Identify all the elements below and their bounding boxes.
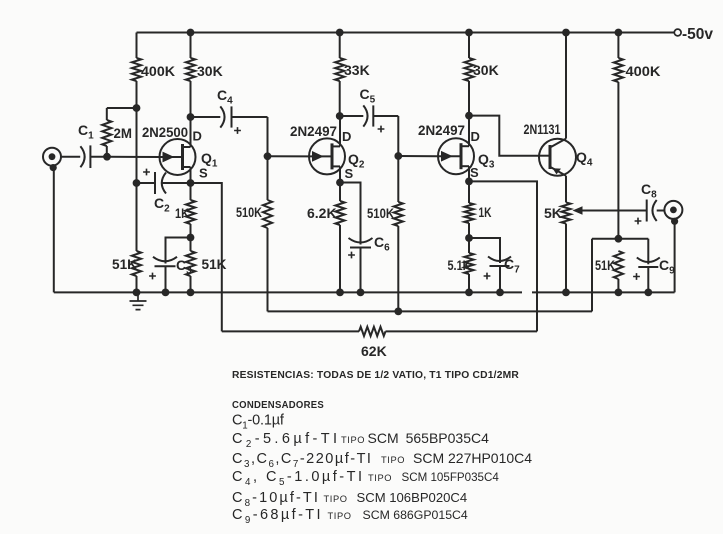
wire bottom ground rail (right part) [532, 291, 675, 293]
svg-text:C5: C5 [360, 86, 376, 106]
node Q2 drain [336, 112, 344, 120]
Q4 collector diagonal [550, 139, 566, 148]
wire Q1 drain [190, 117, 192, 147]
capacitor C5 [340, 115, 364, 117]
svg-text:51K: 51K [595, 257, 615, 273]
node Q3 source network [465, 234, 473, 242]
svg-text:5K: 5K [544, 205, 562, 221]
svg-text:RESISTENCIAS: TODAS DE 1/2 VAT: RESISTENCIAS: TODAS DE 1/2 VATIO, T1 TIP… [232, 369, 519, 381]
wire bias tap down to 510K bus [591, 239, 593, 312]
capacitor C8 [652, 200, 656, 221]
node A : C1 / 2M / Q1 gate junction [103, 153, 111, 161]
svg-text:62K: 62K [361, 343, 387, 359]
transistor Q2 2N2497 [309, 138, 345, 174]
wire Q4 emitter down [565, 176, 567, 203]
svg-text:D: D [342, 129, 351, 144]
svg-text:2N1131: 2N1131 [524, 122, 561, 137]
transistor Q1 2N2500 [160, 139, 196, 175]
ground [130, 292, 147, 309]
svg-text:2N2497: 2N2497 [418, 122, 465, 138]
svg-text:2N2497: 2N2497 [290, 123, 337, 139]
svg-text:51K: 51K [112, 256, 137, 272]
wire C5 out down to Q3 gate [397, 116, 399, 156]
node Q1 drain [187, 113, 195, 121]
svg-text:510K: 510K [236, 204, 262, 220]
terminal -50v open circle [674, 29, 681, 36]
node Q2 source [336, 179, 344, 187]
resistor 51K (Q1 source lower) [186, 251, 195, 276]
wire Q2 drain [339, 116, 341, 146]
capacitor C7 [469, 238, 500, 263]
svg-text:C3,C6,C7-220µf-TITIPOSCM 227HP: C3,C6,C7-220µf-TITIPOSCM 227HP010C4 [232, 450, 532, 470]
svg-text:-50v: -50v [682, 26, 713, 43]
svg-text:30K: 30K [473, 62, 499, 78]
svg-text:5.1K: 5.1K [448, 257, 471, 273]
node output bias tap [615, 235, 623, 243]
resistor 30K (Q1 drain load) [190, 33, 192, 59]
node Q2 gate [264, 152, 272, 160]
wire Q1 source [190, 167, 192, 183]
svg-text:C1-0.1µf: C1-0.1µf [232, 413, 285, 432]
svg-text:S: S [345, 166, 354, 181]
resistor 62K (feedback) [222, 330, 359, 332]
svg-text:2M: 2M [114, 125, 133, 141]
resistor 5.1K [464, 253, 473, 274]
resistor 1K (Q3 source) [468, 181, 470, 203]
svg-text:C4: C4 [217, 87, 233, 107]
svg-text:1K: 1K [175, 205, 189, 221]
node Q3 source [465, 178, 473, 186]
wire Q3 source to 62K feedback [469, 181, 537, 331]
svg-text:S: S [470, 165, 479, 180]
transistor Q3 2N2497 [438, 138, 474, 174]
capacitor C2 [137, 182, 156, 184]
node C2 left [133, 179, 141, 187]
resistor 33K (Q2 drain load) [339, 33, 341, 59]
capacitor C9 [647, 239, 649, 265]
resistor 30K (Q3 drain load) [468, 33, 470, 59]
wire Q1 source to feedback bus [191, 183, 222, 331]
svg-text:510K: 510K [367, 205, 394, 221]
Q4 base wire inside [539, 155, 550, 157]
svg-text:400K: 400K [626, 63, 661, 79]
capacitor C3 [166, 238, 191, 264]
potentiometer 5K [561, 202, 570, 223]
resistor 51K (output bias lower) [614, 251, 623, 279]
wire 2M top to divider [107, 107, 137, 109]
node Q3 gate [394, 152, 402, 160]
node 510K bus junction [394, 308, 402, 316]
node Q1 source [187, 179, 195, 187]
svg-text:C9: C9 [659, 257, 675, 277]
Q4 base bar [549, 145, 552, 169]
resistor 2M [106, 108, 108, 120]
transistor Q4 2N1131 [539, 139, 576, 176]
wire Q3 source [468, 166, 470, 181]
output connector J2 [664, 201, 682, 219]
svg-text:C6: C6 [374, 234, 390, 254]
capacitor C6 [340, 183, 361, 245]
wire Q2 source [339, 166, 341, 182]
svg-text:D: D [193, 129, 202, 144]
wire bottom ground rail (left part) [54, 291, 522, 293]
resistor 510K (Q2 gate) [267, 156, 269, 200]
node divider tap [133, 104, 141, 112]
svg-text:CONDENSADORES: CONDENSADORES [232, 400, 324, 411]
resistor 1K (Q1 source) [190, 183, 192, 200]
svg-text:C8: C8 [641, 181, 657, 201]
svg-text:C1: C1 [78, 122, 94, 142]
resistor 6.2K (Q2 source) [339, 183, 341, 202]
node Q1 source network [187, 234, 195, 242]
wire output lug down to ground rail [674, 223, 676, 292]
resistor 400K (output bias upper) [617, 33, 619, 59]
svg-text:400K: 400K [141, 63, 175, 79]
wire Q3 drain [468, 116, 470, 147]
5K wiper arrow [580, 210, 647, 212]
svg-text:C2: C2 [154, 195, 170, 215]
capacitor C4 [191, 116, 221, 118]
svg-text:C7: C7 [504, 256, 520, 276]
input connector J1 [43, 148, 61, 166]
svg-text:C2-5.6µf-TITIPOSCM 565BP035C4: C2-5.6µf-TITIPOSCM 565BP035C4 [232, 430, 489, 450]
node Q3 drain [465, 112, 473, 120]
wire top supply rail -50v [137, 32, 675, 34]
svg-text:S: S [199, 166, 208, 181]
svg-text:33K: 33K [344, 62, 370, 78]
resistor 510K (Q3 gate) [397, 156, 399, 202]
Q4 emitter diagonal with arrow [550, 167, 566, 176]
wire Q3 drain to Q4 base [469, 116, 539, 156]
wire input lug down to ground rail [53, 169, 55, 292]
wire C4 out down to Q2 gate [267, 117, 269, 156]
wire bias tap horizontal [592, 238, 648, 240]
resistor 51K (input bias lower) [132, 251, 141, 276]
svg-text:1K: 1K [479, 204, 492, 220]
resistor 400K (input divider) [136, 33, 138, 59]
wire gate line to Q2 [268, 155, 310, 157]
svg-text:C4, C5-1.0µf-TITIPOSCM 105FP03: C4, C5-1.0µf-TITIPOSCM 105FP035C4 [232, 469, 499, 488]
wire Q4 collector to rail [565, 33, 567, 139]
svg-text:2N2500: 2N2500 [142, 124, 188, 140]
wire gate line to Q3 [398, 155, 438, 157]
capacitor C1 [61, 156, 80, 158]
svg-text:30K: 30K [197, 63, 223, 79]
svg-text:6.2K: 6.2K [307, 205, 337, 221]
wire gate line to Q1 [107, 156, 160, 158]
svg-text:Q4: Q4 [576, 149, 593, 169]
svg-text:Q3: Q3 [478, 151, 495, 171]
svg-text:D: D [471, 129, 480, 144]
wire 510K common bus [268, 310, 593, 312]
svg-text:C9-68µf-TITIPOSCM 686GP015C4: C9-68µf-TITIPOSCM 686GP015C4 [232, 507, 468, 526]
